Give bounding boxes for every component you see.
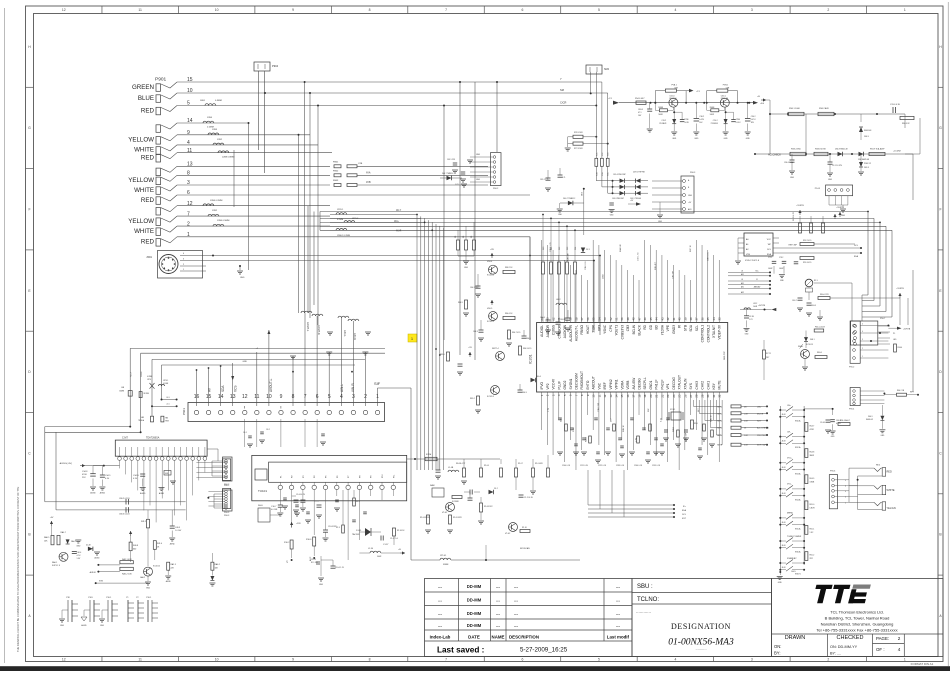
jack YEL-GRN (849, 502, 896, 510)
svg-text:RS3.9 TDA_A48P: RS3.9 TDA_A48P (870, 148, 885, 151)
inductor L-AIN-R (348, 319, 359, 321)
svg-text:...: ... (496, 598, 500, 603)
P601 pin tip marks (196, 330, 369, 381)
svg-text:LED: LED (757, 406, 762, 408)
resistor R642 (503, 270, 515, 273)
svg-text:GND: GND (464, 267, 469, 269)
svg-text:R10.2: R10.2 (284, 542, 290, 544)
svg-text:C20.2: C20.2 (713, 120, 718, 122)
svg-text:61: 61 (557, 317, 561, 321)
svg-text:PVB.1: PVB.1 (723, 85, 728, 87)
svg-text:2: 2 (862, 348, 863, 350)
wire P901 pin 2 (177, 225, 330, 227)
svg-text:59: 59 (569, 317, 573, 321)
svg-text:C200 0.1U: C200 0.1U (562, 465, 571, 467)
power arrow V604 (491, 253, 493, 258)
svg-text:R2B 1K: R2B 1K (623, 424, 625, 432)
svg-text:R6: R6 (471, 236, 473, 238)
svg-text:AOUT-R: AOUT-R (317, 325, 321, 335)
AC check top row (770, 104, 914, 125)
svg-text:23: 23 (666, 394, 670, 398)
svg-text:FBISO: FBISO (580, 324, 584, 334)
wire row8 to right (357, 174, 488, 176)
svg-text:4: 4 (862, 331, 863, 333)
svg-text:SDA: SDA (221, 385, 225, 392)
svg-text:41.48: 41.48 (86, 545, 91, 547)
svg-text:CVBSOR: CVBSOR (557, 324, 561, 338)
svg-text:41: 41 (672, 317, 676, 321)
svg-text:54: 54 (597, 317, 601, 321)
tuner +33V arrow (291, 522, 293, 527)
svg-text:R 1M: R 1M (426, 454, 431, 456)
svg-text:PH2LF: PH2LF (660, 380, 664, 390)
svg-text:32: 32 (718, 394, 722, 398)
transistor V101 IF amp (446, 503, 455, 512)
svg-text:R6B8: R6B8 (710, 107, 715, 109)
svg-text:34: 34 (712, 317, 716, 321)
wire P901 pin 7 (177, 215, 330, 217)
capacitor C111 (519, 494, 524, 496)
svg-text:4: 4 (674, 658, 676, 662)
svg-text:GND: GND (476, 154, 481, 156)
ground C347 (829, 164, 831, 172)
P601 pin header labels (208, 378, 356, 392)
arrow +B AC check (761, 99, 766, 101)
ground Z901 (239, 266, 241, 270)
svg-text:R04.9: R04.9 (810, 478, 815, 480)
bottom ruler ticks and column numbers (62, 657, 906, 662)
svg-text:1.0 10V: 1.0 10V (175, 530, 182, 532)
ferrite bead FB61 row13 (334, 165, 341, 168)
transistor regulator V6.52 (706, 85, 741, 141)
svg-text:29: 29 (700, 394, 704, 398)
svg-text:R2A 10K: R2A 10K (619, 243, 622, 252)
resistor rows IC right LED MUTE KEY (717, 405, 769, 447)
left bias +9V arrow (51, 521, 53, 526)
vertical wires from SM4 to diode cluster (590, 72, 612, 193)
svg-text:C2B: C2B (358, 163, 363, 165)
svg-text:GND: GND (694, 138, 699, 140)
power arrow V605 (491, 300, 493, 305)
svg-text:C34.9: C34.9 (105, 475, 111, 477)
inductor J2B6 row7 (208, 214, 219, 216)
capacitor C643 (479, 329, 484, 331)
svg-text:VDRA: VDRA (620, 380, 624, 390)
svg-text:AGND: AGND (81, 624, 87, 627)
resistor R778 (565, 137, 609, 151)
resistor R645 (465, 300, 468, 309)
svg-text:1TB6: 1TB6 (736, 119, 740, 121)
capacitor C344 (826, 419, 831, 421)
svg-text:GND: GND (828, 179, 833, 181)
svg-text:AIN-R: AIN-R (351, 383, 355, 392)
svg-text:+5VSTB: +5VSTB (796, 205, 804, 207)
svg-text:C10.6 1.19: C10.6 1.19 (335, 567, 344, 569)
svg-text:YELLOW: YELLOW (128, 177, 154, 184)
wire P901 pin 8 (177, 174, 330, 176)
svg-text:C3.44: C3.44 (820, 422, 825, 424)
svg-text:60: 60 (563, 317, 567, 321)
svg-text:PD5BV8: PD5BV8 (711, 123, 718, 125)
svg-text:15: 15 (620, 394, 624, 398)
svg-text:DD-MM: DD-MM (467, 623, 482, 628)
signal rows right of IC201 (728, 271, 771, 295)
svg-text:44: 44 (655, 317, 659, 321)
arrow +5VSTB P905 (834, 214, 836, 219)
svg-text:VP2: VP2 (546, 383, 550, 389)
svg-text:C60.8: C60.8 (811, 305, 816, 307)
svg-text:CHECKED: CHECKED (837, 635, 864, 641)
svg-text:RED: RED (887, 471, 892, 474)
resistor R522 EEP_WP (789, 240, 855, 247)
svg-text:10: 10 (592, 394, 596, 398)
svg-text:R6: R6 (463, 236, 465, 238)
svg-text:19: 19 (643, 394, 647, 398)
svg-text:SB77.4: SB77.4 (492, 348, 499, 350)
svg-text:2: 2 (827, 658, 829, 662)
svg-text:R1.1 1NF: R1.1 1NF (311, 562, 318, 564)
svg-text:GND3: GND3 (672, 325, 676, 334)
svg-text:R2B 22K: R2B 22K (568, 252, 570, 261)
svg-text:R41.4: R41.4 (157, 543, 162, 545)
P901 pin 12 (156, 201, 193, 215)
IC U201 main processor box (529, 323, 728, 393)
svg-text:P60.4_L60.R: P60.4_L60.R (815, 327, 826, 329)
svg-text:R2B4: R2B4 (586, 436, 588, 442)
svg-text:F: F (939, 207, 941, 211)
svg-text:FB63: FB63 (333, 180, 339, 182)
wire bundle into IC top (593, 319, 595, 330)
svg-text:PD5BV8: PD5BV8 (659, 123, 666, 125)
svg-text:RA0.5: RA0.5 (44, 536, 49, 539)
svg-text:P60.3: P60.3 (690, 172, 696, 174)
wire L65 (161, 397, 178, 401)
svg-text:SC181.5: SC181.5 (487, 275, 494, 277)
svg-text:8D60.56: 8D60.56 (721, 98, 728, 100)
svg-text:51: 51 (614, 317, 618, 321)
svg-text:1.7L: 1.7L (562, 177, 566, 179)
jack WHITE (849, 485, 895, 494)
svg-text:R60.6: R60.6 (817, 352, 822, 354)
transistor VA01 (59, 552, 68, 561)
svg-text:KS4.A: KS4.A (795, 498, 801, 501)
svg-text:SC181.5: SC181.5 (487, 396, 494, 398)
wire Z901 chroma (213, 260, 594, 262)
capacitor C642 (476, 285, 481, 287)
inductor J6B1 row5 (205, 104, 216, 106)
svg-text:TCL Thomson Electronics Ltd.: TCL Thomson Electronics Ltd. (830, 610, 884, 615)
svg-text:C40.4: C40.4 (77, 552, 82, 554)
svg-text:GND2: GND2 (563, 380, 567, 389)
diode SM4148 mid (557, 198, 584, 216)
wire audio coupling row1 (45, 498, 186, 505)
key switch KS2.A CH- (779, 431, 805, 449)
svg-text:R54.6 4K7: R54.6 4K7 (635, 98, 645, 100)
tuner pin components (258, 490, 405, 586)
svg-text:...: ... (616, 611, 620, 616)
IC201 bottom pin down wires (542, 403, 720, 470)
connector P601 SIF (182, 394, 385, 422)
svg-text:...: ... (514, 623, 518, 628)
svg-text:P9.05: P9.05 (815, 188, 821, 190)
svg-text:J6.08: J6.08 (782, 522, 786, 524)
svg-text:62: 62 (551, 317, 555, 321)
svg-text:Y1DVA: Y1DVA (660, 324, 664, 335)
svg-text:R3.44: R3.44 (898, 347, 903, 349)
svg-text:14: 14 (614, 394, 618, 398)
svg-text:SM4: SM4 (604, 68, 610, 71)
wire audio mute input (90, 564, 120, 574)
svg-text:J6.08: J6.08 (782, 493, 786, 495)
inductor J2P62 (344, 221, 355, 223)
svg-text:3B0R: 3B0R (810, 455, 815, 457)
svg-text:AVL/EW: AVL/EW (632, 378, 636, 390)
bottom page black strip (0, 666, 950, 671)
svg-text:VSC: VSC (597, 382, 601, 389)
svg-text:J2B6.2 0.2MM: J2B6.2 0.2MM (337, 235, 350, 237)
capacitor C34B (133, 460, 146, 495)
resistor R646 (503, 316, 515, 319)
svg-text:D2.1: D2.1 (586, 249, 590, 251)
svg-text:GND: GND (790, 177, 795, 179)
ground IR region (819, 310, 821, 316)
svg-text:C40.9: C40.9 (175, 527, 180, 529)
svg-text:SDD-T3P: SDD-T3P (724, 351, 726, 360)
IC201 top pin names (540, 324, 722, 342)
svg-text:C34 1.7U: C34 1.7U (638, 252, 640, 261)
svg-text:C2B4 1.7U: C2B4 1.7U (550, 242, 552, 252)
svg-text:PAGE:: PAGE: (876, 636, 889, 641)
svg-text:C1.37: C1.37 (383, 544, 389, 546)
transistor V607 lower (491, 386, 500, 395)
svg-text:WHITE: WHITE (887, 489, 895, 492)
svg-text:R1.04: R1.04 (484, 465, 489, 467)
resistor R341 (815, 356, 827, 359)
svg-text:J2B4 0.2MM: J2B4 0.2MM (210, 200, 222, 202)
svg-text:GD: GD (649, 324, 653, 329)
svg-text:C10.7: C10.7 (271, 506, 277, 508)
svg-text:Y: Y (560, 77, 562, 81)
IC201 bottom pin numbers and stubs (540, 392, 722, 403)
svg-text:46: 46 (643, 317, 647, 321)
wire P901 pin 6 (177, 194, 330, 196)
svg-text:C10.4: C10.4 (311, 559, 316, 561)
resistor RA12 (120, 567, 133, 570)
IC201 top pin up wires (542, 240, 720, 323)
svg-text:RA1.1 42K: RA1.1 42K (122, 558, 132, 561)
svg-text:J2B4: J2B4 (207, 117, 213, 119)
svg-text:P.1: P.1 (893, 333, 895, 335)
diode D604 (531, 378, 536, 382)
bias resistors IF top (515, 468, 518, 477)
svg-text:R64.9 470: R64.9 470 (523, 348, 531, 350)
svg-text:C72.1: C72.1 (768, 257, 772, 259)
svg-text:R40.8: R40.8 (133, 545, 138, 547)
arrow +P1 regulator (686, 89, 701, 93)
wire bundle mid verticals (417, 215, 444, 471)
svg-text:33: 33 (718, 317, 722, 321)
inductor J2P63 (336, 228, 347, 230)
svg-text:2: 2 (827, 8, 829, 12)
P901 pin 13 (156, 162, 193, 176)
svg-text:J2B8 0.8MM: J2B8 0.8MM (222, 157, 234, 159)
jack RED (849, 465, 892, 477)
wires IC201 into bus (588, 470, 624, 517)
svg-text:10: 10 (215, 658, 219, 662)
P901 pin 14 (156, 118, 193, 132)
svg-text:J2B6 0.5MM: J2B6 0.5MM (217, 220, 229, 222)
svg-text:...: ... (438, 611, 442, 616)
svg-text:DD-MM: DD-MM (467, 584, 482, 589)
svg-text:...: ... (496, 623, 500, 628)
svg-text:R6B8: R6B8 (658, 107, 663, 109)
svg-text:RA0.7: RA0.7 (61, 531, 66, 534)
svg-text:J2B2: J2B2 (212, 210, 218, 212)
crystal group Y303 (99, 597, 118, 627)
capacitor C series IR (798, 297, 803, 299)
svg-text:SIF: SIF (374, 381, 381, 386)
P901 pin 4 (WHITE) (134, 140, 190, 154)
svg-text:IREF: IREF (603, 382, 607, 389)
SIF to tuner wires (243, 419, 326, 447)
svg-text:12: 12 (62, 8, 66, 12)
capacitor C606 pair (565, 310, 571, 331)
svg-text:D60.9: D60.9 (868, 416, 873, 418)
transistor regulator V6.51 (654, 85, 689, 141)
wire P901 pin 14 (177, 122, 249, 124)
capacitor C110 (468, 497, 473, 499)
svg-text:28: 28 (695, 394, 699, 398)
svg-text:2K7: 2K7 (766, 357, 769, 359)
junction dots P901 bus (459, 81, 461, 83)
svg-text:CHK3: CHK3 (695, 381, 699, 390)
svg-text:VSS: VSS (746, 254, 751, 256)
svg-text:AIN-L: AIN-L (340, 384, 344, 392)
svg-text:BLACK: BLACK (638, 324, 642, 335)
svg-text:RCT.1: RCT.1 (766, 353, 771, 355)
svg-text:3: 3 (751, 8, 753, 12)
svg-text:............: ............ (636, 609, 651, 614)
svg-text:CONTROL1: CONTROL1 (701, 325, 705, 343)
IR wires right (814, 283, 900, 321)
connector P603 left small (212, 457, 232, 487)
svg-text:VB3: VB3 (141, 417, 144, 419)
svg-text:BLUE: BLUE (138, 95, 154, 102)
resistor RCT1 (763, 350, 766, 359)
svg-text:DA0.1: DA0.1 (71, 540, 76, 543)
svg-text:YELLOW: YELLOW (128, 137, 154, 144)
svg-text:R5.25 4.7K: R5.25 4.7K (793, 211, 795, 221)
svg-text:50: 50 (620, 317, 624, 321)
svg-text:RS6.1 100K: RS6.1 100K (789, 108, 800, 110)
svg-text:C80.3 0.22U: C80.3 0.22U (119, 514, 130, 516)
svg-text:AUDOUT-L: AUDOUT-L (574, 325, 578, 341)
svg-text:EEP_WP: EEP_WP (757, 445, 767, 447)
wire JL5 (151, 404, 178, 408)
right side extra verticals (905, 154, 913, 392)
svg-text:25: 25 (678, 394, 682, 398)
resistor R344b (894, 344, 897, 352)
connector P604 left small (214, 490, 232, 517)
svg-text:RA1.3: RA1.3 (171, 563, 176, 566)
svg-text:CONTROL2: CONTROL2 (706, 325, 710, 343)
resistor TB6 YEM (161, 416, 169, 422)
svg-text:D61.8: D61.8 (864, 167, 869, 169)
svg-text:48: 48 (632, 317, 636, 321)
svg-text:SCL: SCL (695, 325, 699, 331)
svg-text:L35.2: L35.2 (753, 303, 757, 305)
svg-text:AOUT-L: AOUT-L (306, 322, 310, 332)
svg-text:VCC4V: VCC4V (552, 378, 556, 390)
svg-text:C2B 0.1U: C2B 0.1U (585, 261, 587, 270)
key switch KS3.A VOL+ (779, 458, 805, 476)
svg-text:Last saved :: Last saved : (437, 646, 484, 655)
P901 pin 7 (YELLOW) (128, 211, 190, 225)
tuner extra pin capacitors (282, 498, 367, 523)
svg-text:J6B1: J6B1 (200, 100, 206, 102)
inductor J2B5 row12 (203, 204, 214, 206)
P901 pin 10 (BLUE) (138, 88, 193, 102)
yellow highlight marker (408, 334, 417, 342)
svg-text:R34.4 A04.7: R34.4 A04.7 (840, 419, 850, 422)
svg-text:C/CR: C/CR (560, 101, 566, 105)
svg-text:D1.2: D1.2 (494, 488, 498, 490)
svg-text:SBU :: SBU : (637, 584, 653, 590)
svg-text:R2.0: R2.0 (694, 423, 698, 425)
wire audio coupling row2 (56, 507, 186, 515)
svg-text:18: 18 (637, 394, 641, 398)
svg-text:Y30.1: Y30.1 (146, 597, 152, 599)
svg-text:L1.30: L1.30 (368, 548, 374, 550)
svg-text:C78.2: C78.2 (779, 257, 783, 259)
svg-text:0.01U: 0.01U (736, 122, 741, 124)
capacitor C808 input (638, 103, 653, 132)
svg-text:FB62: FB62 (333, 171, 339, 173)
P901 pin 3 (WHITE) (134, 180, 190, 194)
capacitor C721 C782 eeprom (768, 257, 798, 282)
svg-text:10: 10 (215, 8, 219, 12)
svg-text:C34.6 1.7U: C34.6 1.7U (784, 162, 794, 164)
svg-text:37: 37 (695, 317, 699, 321)
svg-text:VOL+: VOL+ (787, 458, 793, 460)
arrow +5VSTB P902 (888, 327, 910, 341)
ground P603 (659, 202, 661, 214)
svg-text:DECSDGM: DECSDGM (574, 373, 578, 390)
svg-text:VCC: VCC (767, 239, 772, 241)
svg-text:RA1.2 10K: RA1.2 10K (122, 573, 132, 576)
resistor keypad R04.9 (805, 475, 815, 484)
svg-text:C20.2: C20.2 (661, 120, 666, 122)
svg-text:SC18.15: SC18.15 (806, 344, 813, 346)
transistor V605 (489, 312, 498, 321)
svg-text:R1.2: R1.2 (356, 501, 360, 503)
svg-text:AGND: AGND (95, 557, 101, 560)
resistor RA02 (209, 553, 219, 586)
resistor R607 IR (818, 297, 830, 300)
key switch KS8.% STANDBY (779, 557, 805, 576)
svg-text:SC18.15: SC18.15 (153, 566, 160, 568)
svg-text:ABCOUT: ABCOUT (592, 376, 596, 389)
svg-text:J6.08: J6.08 (782, 567, 786, 569)
svg-text:R68.2 1K: R68.2 1K (505, 267, 513, 269)
svg-text:C2B1 33P: C2B1 33P (686, 432, 688, 442)
capacitor C649 (518, 389, 523, 391)
svg-text:DESIGNATION: DESIGNATION (671, 622, 731, 631)
svg-text:VP1: VP1 (666, 383, 670, 389)
wire P901 pin 4 (177, 144, 318, 146)
svg-text:+9V: +9V (490, 249, 494, 251)
svg-text:L1.4B: L1.4B (448, 467, 454, 469)
